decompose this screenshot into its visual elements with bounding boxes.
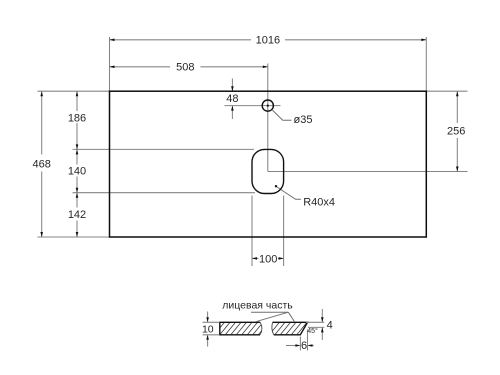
svg-text:508: 508 [176, 62, 194, 74]
svg-text:ø35: ø35 [294, 114, 313, 126]
svg-text:6: 6 [301, 340, 307, 352]
svg-text:4: 4 [327, 319, 333, 331]
svg-text:468: 468 [33, 158, 51, 170]
svg-text:140: 140 [68, 166, 86, 178]
svg-text:48: 48 [226, 93, 238, 105]
svg-text:10: 10 [202, 324, 214, 336]
svg-text:R40x4: R40x4 [303, 196, 335, 208]
svg-text:45°: 45° [307, 327, 318, 335]
svg-text:256: 256 [447, 125, 465, 137]
svg-text:100: 100 [259, 253, 277, 265]
svg-text:186: 186 [68, 112, 86, 124]
svg-text:лицевая часть: лицевая часть [222, 300, 293, 312]
svg-text:1016: 1016 [256, 35, 280, 47]
svg-text:142: 142 [68, 209, 86, 221]
